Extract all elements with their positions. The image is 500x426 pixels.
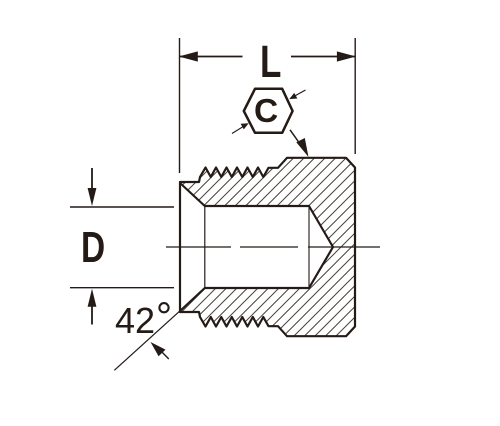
svg-text:42: 42 <box>115 300 155 341</box>
D upper extension line <box>70 206 174 208</box>
cavity outline (flare + bore + drill cone) <box>180 183 333 311</box>
svg-text:D: D <box>81 224 105 272</box>
hex lower-left leader arrow <box>232 123 249 133</box>
L left extension line <box>179 38 181 173</box>
hexagon symbol <box>244 89 293 133</box>
cone base edge line <box>308 206 310 288</box>
centerline <box>166 246 380 248</box>
42 degree reference diagonal <box>114 311 180 371</box>
L dimension line right segment <box>291 56 355 58</box>
L right arrowhead <box>337 51 356 61</box>
outer profile outline <box>180 158 355 336</box>
L right extension line <box>354 38 356 154</box>
leader from hexagon to part top face <box>290 130 309 157</box>
42 degree leader arrow <box>151 342 169 359</box>
L dimension line left segment <box>180 56 243 58</box>
D upper arrow <box>88 168 97 206</box>
svg-text:C: C <box>254 93 278 130</box>
flare base edge line <box>204 206 206 288</box>
D lower arrow <box>88 289 97 325</box>
svg-text:L: L <box>260 36 281 88</box>
hatched body fill <box>180 158 355 336</box>
degree ring <box>159 303 168 312</box>
L left arrowhead <box>179 51 198 61</box>
D lower extension line <box>70 287 174 289</box>
hex upper-right leader arrow <box>289 90 305 99</box>
